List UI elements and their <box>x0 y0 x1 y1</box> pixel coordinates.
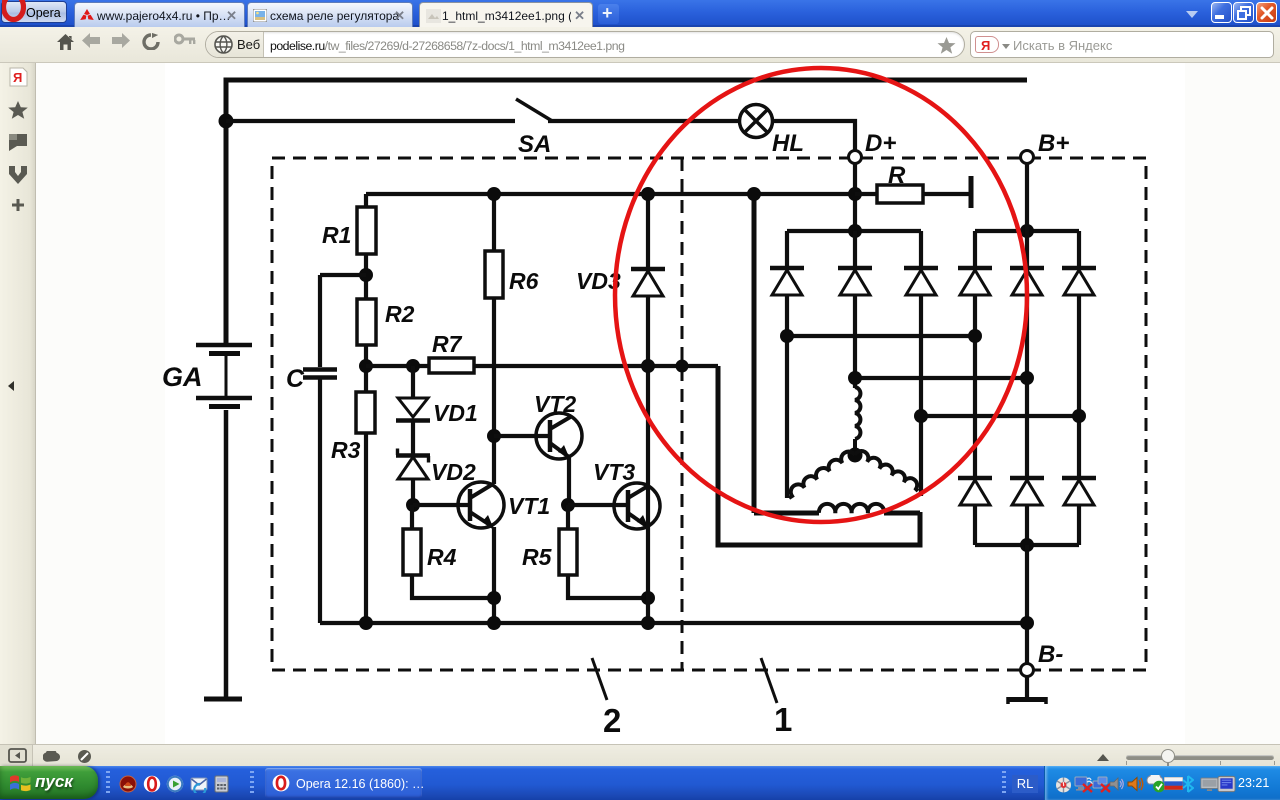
additional diode rail <box>975 543 1079 547</box>
node VD3/y366 <box>641 359 655 373</box>
rectifier diode D1 <box>770 231 804 498</box>
stator winding right <box>855 451 918 491</box>
wire D+ down <box>853 163 857 231</box>
node phase C left <box>914 409 928 423</box>
leader line 2 <box>592 658 607 700</box>
node VD2/R4/VT1 <box>406 498 420 512</box>
nav icons <box>56 33 75 51</box>
node R1/R2/C <box>359 268 373 282</box>
lamp HL <box>740 105 773 138</box>
diode VD3 <box>631 269 665 296</box>
node bus VT1 <box>487 616 501 630</box>
resistor R3 <box>356 392 375 623</box>
wire R6 column <box>492 194 496 484</box>
rectifier diode D4 <box>958 231 992 477</box>
rectifier rail2 <box>975 229 1079 233</box>
additional diode Dc <box>1062 478 1096 545</box>
wire rotor feed x754 <box>754 194 920 513</box>
node star point <box>848 448 863 463</box>
additional diode Da <box>958 478 992 545</box>
transistor VT2 <box>536 413 582 505</box>
switch SA <box>516 99 553 122</box>
node phase C right <box>1072 409 1086 423</box>
toolbar <box>0 27 1280 63</box>
rectifier diode D6 <box>1062 231 1096 477</box>
resistor R2 <box>357 299 376 345</box>
wire VT2 base <box>494 434 550 438</box>
node VD3 top <box>641 187 655 201</box>
rectifier diode D3 <box>904 231 938 496</box>
node VT2 emitter / VT3 base / R5 <box>561 498 575 512</box>
rectifier rail1 <box>787 229 921 233</box>
wire y366 field feed <box>366 364 718 368</box>
stator winding middle <box>855 387 860 455</box>
phase rail B <box>855 376 1027 380</box>
wire bus y194 <box>366 194 855 207</box>
node bus R3 <box>359 616 373 630</box>
node D+ <box>849 151 862 164</box>
node phase B right <box>1020 371 1034 385</box>
resistor R5 <box>559 505 648 598</box>
node bus VT3 <box>641 616 655 630</box>
rectifier diode D2 <box>838 231 872 388</box>
node R2/R3/R7 <box>359 359 373 373</box>
wire SA to HL <box>548 119 740 123</box>
node VT1 collector / VT2 base <box>487 429 501 443</box>
node x754 top <box>747 187 761 201</box>
node R6 top <box>487 187 501 201</box>
node VD1 top <box>406 359 420 373</box>
node VT1 emitter/R4 <box>487 591 501 605</box>
node divider/y366 <box>676 360 689 373</box>
resistor R7 <box>429 358 474 373</box>
zener VD2 <box>396 449 430 506</box>
dashed box 2 regulator border <box>272 158 1146 670</box>
dashed divider regulator/alternator <box>681 158 684 670</box>
phase rail A <box>787 334 975 338</box>
node bus B- <box>1020 616 1034 630</box>
wire SA feed <box>226 119 515 123</box>
svg-text:Я: Я <box>13 70 22 85</box>
wire HL to D+ <box>772 121 855 151</box>
resistor R6 <box>485 251 503 298</box>
leader line 1 <box>761 658 777 703</box>
sidebar <box>0 63 36 744</box>
node phase B left <box>848 371 862 385</box>
node D+/R junction <box>848 187 862 201</box>
taskbar <box>0 766 1280 800</box>
node phase A right <box>968 329 982 343</box>
wire to B- <box>1025 545 1029 664</box>
node B- <box>1021 664 1034 677</box>
wire battery top / top rail to B+ <box>226 80 1027 343</box>
resistor R1 <box>357 207 376 254</box>
resistor R <box>855 176 971 208</box>
wire VD3 column <box>646 194 650 623</box>
node rail1 D+ <box>848 224 862 238</box>
wire to C <box>320 273 366 277</box>
wire VT1 base <box>413 503 470 507</box>
additional diode Db <box>1010 478 1044 545</box>
diode VD1 <box>396 366 430 455</box>
wire brush loop outer <box>718 366 920 545</box>
node add rail <box>1020 538 1034 552</box>
stator winding left <box>789 452 855 498</box>
resistor R4 <box>403 505 494 598</box>
wire bottom bus <box>320 621 1027 625</box>
rotor field winding <box>819 504 884 513</box>
wire R1-R2 <box>364 254 368 299</box>
wire R2 to y366 <box>364 345 368 392</box>
status bar <box>0 744 1280 766</box>
node rail2 B+ <box>1020 224 1034 238</box>
node B+ <box>1021 151 1034 164</box>
node phase A left <box>780 329 794 343</box>
wire VT3 base <box>568 503 628 507</box>
tab bar <box>0 0 1280 27</box>
ground B- <box>1008 676 1046 704</box>
rectifier diode D5 <box>1010 163 1044 477</box>
highlight ellipse alternator <box>615 68 1027 522</box>
capacitor C <box>303 275 337 623</box>
node junction battery-SA <box>219 114 234 129</box>
transistor VT3 <box>614 483 660 529</box>
phase rail C <box>921 414 1079 418</box>
transistor VT1 <box>458 482 504 623</box>
battery GA <box>196 345 252 699</box>
node VT3 emitter/R5 <box>641 591 655 605</box>
